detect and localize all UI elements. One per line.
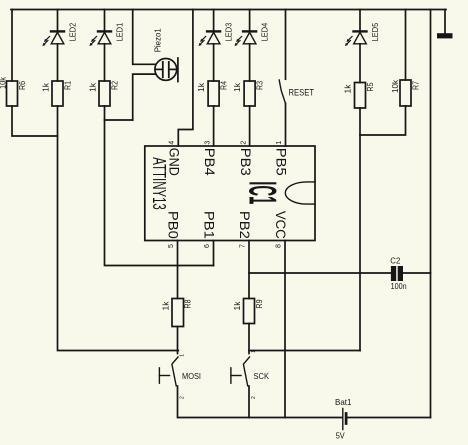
svg-text:R1: R1 bbox=[64, 81, 73, 90]
svg-text:1k: 1k bbox=[162, 300, 171, 310]
svg-text:R5: R5 bbox=[366, 82, 375, 91]
svg-text:MOSI: MOSI bbox=[182, 372, 201, 381]
svg-text:LED4: LED4 bbox=[260, 22, 269, 41]
svg-text:2: 2 bbox=[251, 396, 257, 399]
svg-text:PB3: PB3 bbox=[238, 148, 254, 176]
svg-text:1: 1 bbox=[180, 354, 186, 357]
svg-text:R7: R7 bbox=[412, 81, 421, 90]
svg-text:1k: 1k bbox=[89, 82, 98, 92]
svg-text:8: 8 bbox=[275, 244, 282, 248]
svg-text:PB2: PB2 bbox=[237, 211, 253, 239]
svg-text:5V: 5V bbox=[336, 432, 346, 441]
svg-text:R2: R2 bbox=[111, 81, 120, 90]
svg-text:100n: 100n bbox=[391, 282, 407, 291]
svg-text:PB4: PB4 bbox=[201, 148, 217, 176]
svg-text:PB5: PB5 bbox=[273, 148, 289, 176]
svg-text:R4: R4 bbox=[220, 81, 229, 90]
svg-text:1k: 1k bbox=[344, 83, 353, 93]
svg-text:3: 3 bbox=[204, 141, 211, 145]
svg-text:LED2: LED2 bbox=[68, 22, 77, 41]
svg-text:1k: 1k bbox=[233, 300, 242, 310]
svg-text:Piezo1: Piezo1 bbox=[154, 28, 163, 53]
svg-text:R9: R9 bbox=[255, 299, 264, 308]
svg-text:10k: 10k bbox=[391, 79, 400, 93]
svg-text:1k: 1k bbox=[42, 82, 51, 92]
svg-text:Bat1: Bat1 bbox=[335, 398, 352, 407]
svg-text:LED5: LED5 bbox=[371, 22, 380, 41]
svg-text:PB1: PB1 bbox=[201, 211, 217, 239]
svg-text:6: 6 bbox=[204, 244, 211, 248]
svg-text:LED1: LED1 bbox=[115, 22, 124, 41]
svg-text:R8: R8 bbox=[184, 299, 193, 308]
svg-text:5: 5 bbox=[168, 244, 175, 248]
svg-text:2: 2 bbox=[241, 141, 248, 145]
svg-text:IC1: IC1 bbox=[240, 181, 284, 204]
svg-text:R6: R6 bbox=[18, 81, 27, 90]
svg-text:2: 2 bbox=[180, 396, 186, 399]
svg-text:1k: 1k bbox=[233, 82, 242, 92]
svg-text:C2: C2 bbox=[390, 257, 401, 266]
svg-text:4: 4 bbox=[169, 141, 176, 145]
svg-text:10k: 10k bbox=[0, 76, 8, 89]
svg-text:VCC: VCC bbox=[273, 211, 289, 239]
svg-text:RESET: RESET bbox=[289, 88, 315, 98]
svg-text:SCK: SCK bbox=[254, 372, 270, 381]
svg-text:ATTINY13: ATTINY13 bbox=[148, 157, 169, 210]
svg-text:1: 1 bbox=[276, 141, 283, 145]
svg-text:7: 7 bbox=[239, 244, 246, 248]
svg-text:R3: R3 bbox=[256, 81, 265, 90]
svg-text:LED3: LED3 bbox=[224, 22, 233, 41]
svg-text:1k: 1k bbox=[197, 82, 206, 92]
svg-text:PB0: PB0 bbox=[165, 211, 181, 239]
svg-text:1: 1 bbox=[251, 350, 257, 353]
